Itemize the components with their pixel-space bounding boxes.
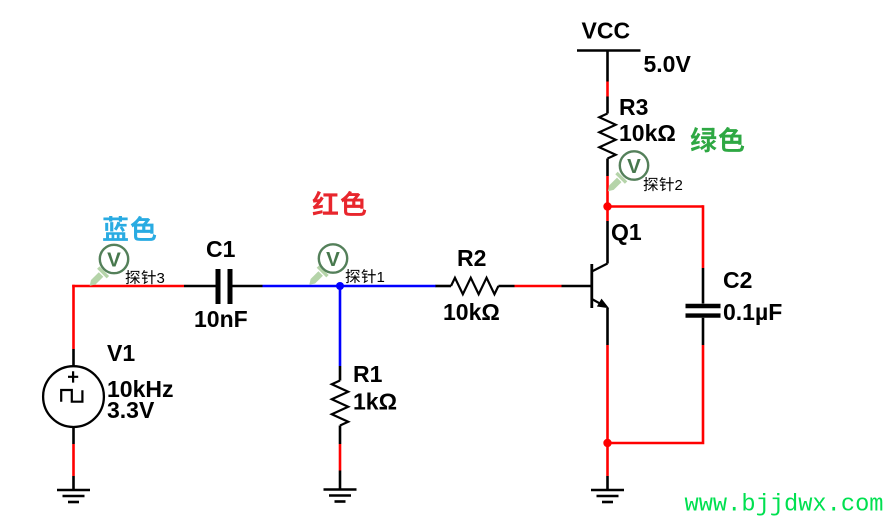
wire: black into V1 top [72,349,75,367]
svg-text:R1: R1 [353,361,383,387]
wire: black lead into R3 [606,97,609,114]
svg-text:R2: R2 [457,245,486,271]
wire: black lead into R1 [339,366,342,381]
wire: red segment below R1 [339,444,342,471]
wire: red horizontal top to C2 branch [608,205,704,208]
wire: black lead into R2 [436,285,452,288]
wire: blue segment C1 to junction node [263,285,341,288]
svg-text:10kΩ: 10kΩ [619,120,676,146]
wire: top-left horizontal red segment from corner to C1 [72,285,184,288]
wire: black lead from R3 [606,159,609,177]
svg-text:C1: C1 [206,236,236,262]
ground: under V1 [57,490,90,502]
wire: collector black vertical [606,221,609,264]
svg-text:Q1: Q1 [611,219,642,245]
label 蓝色 (blue) [103,216,156,241]
node: blue junction dot [336,282,344,290]
wire: black segment into Q1 base [562,285,591,288]
wire: left vertical red segment down from corner [72,285,75,349]
svg-text:5.0V: 5.0V [644,51,692,77]
svg-text:2: 2 [675,177,683,194]
label 探针3 [126,270,165,287]
svg-text:1kΩ: 1kΩ [353,389,397,415]
wire: black lead into C2 [702,268,705,304]
svg-text:VCC: VCC [582,18,631,44]
label 探针2 [644,177,683,194]
label 绿色 (green) [691,127,745,153]
label 红色 (red) [313,191,367,216]
wire: collector red segment to node [606,207,609,222]
capacitor C2 [686,306,721,316]
svg-text:V1: V1 [107,340,135,366]
svg-text:V: V [107,249,121,272]
wire: black from VCC bar down [606,51,609,82]
wire: red vertical C2 branch bottom [608,345,704,444]
probe voltage probe1 symbol [309,244,347,284]
probe voltage probe3 symbol [90,245,129,286]
resistor R1 [332,381,348,426]
capacitor C1 [218,269,230,304]
transistor Q1 [592,264,608,309]
resistor R2 [451,278,498,294]
svg-text:10nF: 10nF [194,306,248,332]
wire: red vertical down C2 branch top [702,205,705,268]
source V1 [43,366,104,427]
label 探针1 [346,269,385,286]
wire: red segment on VCC branch [606,82,609,97]
svg-text:V: V [627,155,641,178]
wire: black into ground Q1 [606,476,609,490]
wire: black lead into C1 left plate [184,285,216,288]
svg-text:www.bjjdwx.com: www.bjjdwx.com [685,492,884,519]
power rail VCC bar [577,49,641,52]
svg-text:C2: C2 [723,267,752,293]
svg-text:3.3V: 3.3V [107,397,155,423]
node: red emitter junction dot [603,439,611,447]
ground: under R1 [324,490,357,502]
wire: black into ground R1 [339,471,342,489]
wire: red segment R3 to collector node [606,176,609,207]
wire: black lead from R2 [498,285,514,288]
wire: red below bottom node [606,443,609,476]
svg-text:3: 3 [157,270,165,287]
wire: blue segment junction to R2 [340,285,436,288]
svg-text:1: 1 [377,269,385,286]
wire: blue vertical from junction down to R1 [339,286,342,366]
wire: red segment R2 to Q1 base [515,285,562,288]
wire: black into ground V1 [72,476,75,490]
probe voltage probe2 symbol [608,151,648,191]
wire: black lead from C2 [702,318,705,345]
svg-text:V: V [326,248,340,271]
resistor R3 [599,114,615,159]
svg-text:R3: R3 [619,94,648,120]
wire: black below V1 [72,428,75,445]
wire: black lead from R1 [339,426,342,445]
wire: emitter red vertical to bottom node [606,345,609,443]
wire: black lead from C1 right plate [233,285,263,288]
svg-text:0.1µF: 0.1µF [723,299,782,325]
wire: red segment below V1 [72,444,75,476]
svg-text:10kΩ: 10kΩ [443,299,500,325]
wire: emitter black vertical [606,308,609,345]
node: red collector junction dot [603,202,611,210]
ground: under Q1 emitter [591,490,624,502]
